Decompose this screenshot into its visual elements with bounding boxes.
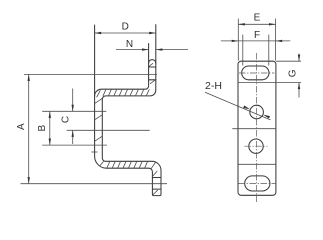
- dimension E: dimension line: [238, 23, 275, 25]
- dimension E: left extension line (part left edge extended up): [237, 19, 239, 61]
- svg-text:C: C: [61, 116, 72, 123]
- label 2-H leader line through hole 1: [205, 92, 271, 120]
- dimension D: right arrowhead: [149, 32, 156, 34]
- dimension A: bottom arrowhead: [28, 177, 30, 184]
- right view: slot horizontal centerline: [239, 72, 274, 74]
- dimension E: left arrowhead: [238, 23, 245, 25]
- dimension N: left leader with arrowhead pointing right: [116, 49, 149, 51]
- right view: outline rounded rectangle: [238, 61, 276, 195]
- dimension B: top extension line (hole1 centerline): [42, 110, 106, 112]
- left view: slot bottom edge seen in section: [149, 79, 156, 81]
- dimension C: bottom leader with arrowhead pointing up: [72, 130, 74, 144]
- dimension B: dimension line: [49, 111, 51, 145]
- hatching: flange1 section: [97, 89, 149, 97]
- dimension A: top arrowhead: [28, 74, 30, 81]
- svg-text:A: A: [16, 123, 27, 130]
- dimension C: top leader with arrowhead pointing down: [72, 89, 74, 112]
- svg-text:N: N: [126, 39, 133, 50]
- dimension D: left arrowhead: [95, 32, 102, 34]
- svg-text:D: D: [122, 22, 129, 33]
- svg-text:B: B: [37, 125, 48, 132]
- svg-text:G: G: [288, 69, 299, 77]
- dimension F: dimension line crossing with outside arrowheads: [221, 40, 290, 42]
- dimension B: top arrowhead: [49, 111, 51, 118]
- hatching: flange2 section: [100, 161, 156, 169]
- dimension E: right extension line (part right edge extended up): [275, 19, 277, 61]
- dimension N: right leader with arrowhead pointing left: [156, 49, 188, 51]
- dimension F: right slot extension line: [268, 35, 270, 66]
- left view: outer profile (web left edge, bottom bend, flange2 bottom, bottom tab, flange2 top, web right edge, flange1 bottom, tab right edge): [95, 25, 161, 196]
- svg-text:E: E: [254, 12, 261, 23]
- dimension F: left slot extension line: [242, 35, 244, 66]
- right view: bend line 3: [238, 163, 276, 165]
- right view: oval horizontal centerline: [239, 183, 277, 185]
- hatching: web section: [95, 98, 103, 141]
- left view: oval bottom edge seen in section: [152, 188, 161, 190]
- dimension A: bottom extension line (oval centerline extended): [21, 183, 168, 185]
- right view: hole 2 circle: [249, 139, 263, 153]
- left view: top tab rounded end (dome): [149, 60, 156, 64]
- right view: top slot (stadium): [242, 66, 269, 80]
- dimension A: top extension line (slot centerline extended): [24, 73, 157, 75]
- dimension C: bottom extension line: [67, 129, 150, 131]
- svg-text:F: F: [254, 30, 260, 41]
- dimension E: right arrowhead: [269, 23, 276, 25]
- dimension D: dimension line with arrows: [95, 32, 156, 34]
- label 2-H: lower arrowhead at hole edge: [263, 115, 270, 119]
- dimension B: bottom arrowhead: [49, 139, 51, 146]
- hatching: top tab section: [149, 63, 155, 83]
- right view: bend line 2: [232, 128, 276, 130]
- hatching: bottom tab section: [153, 171, 158, 194]
- svg-text:2-H: 2-H: [205, 80, 222, 92]
- dimension G: top extension line (part top edge extended right): [276, 60, 301, 62]
- right view: vertical centerline: [256, 53, 258, 202]
- right view: hole2 horizontal centerline: [244, 145, 267, 147]
- right view: hole 1 circle: [250, 105, 264, 119]
- left view: hole2 bottom edge tick on web: [91, 151, 97, 153]
- left view: slot top edge seen in section: [149, 66, 156, 68]
- label 2-H: upper arrowhead at hole edge: [243, 106, 250, 110]
- dimension G: dimension line with outside arrowheads: [298, 54, 300, 62]
- dimension B: bottom extension line (hole2 centerline): [42, 144, 107, 146]
- right view: bend line 1 (extended right for G): [238, 82, 301, 84]
- right view: bottom oval slot: [245, 176, 270, 191]
- dimension A: dimension line: [28, 74, 30, 183]
- left view: oval top edge seen in section: [152, 177, 161, 179]
- left view: flange1 top edge with outer bend to web and inner bend to top tab left edge: [95, 44, 149, 97]
